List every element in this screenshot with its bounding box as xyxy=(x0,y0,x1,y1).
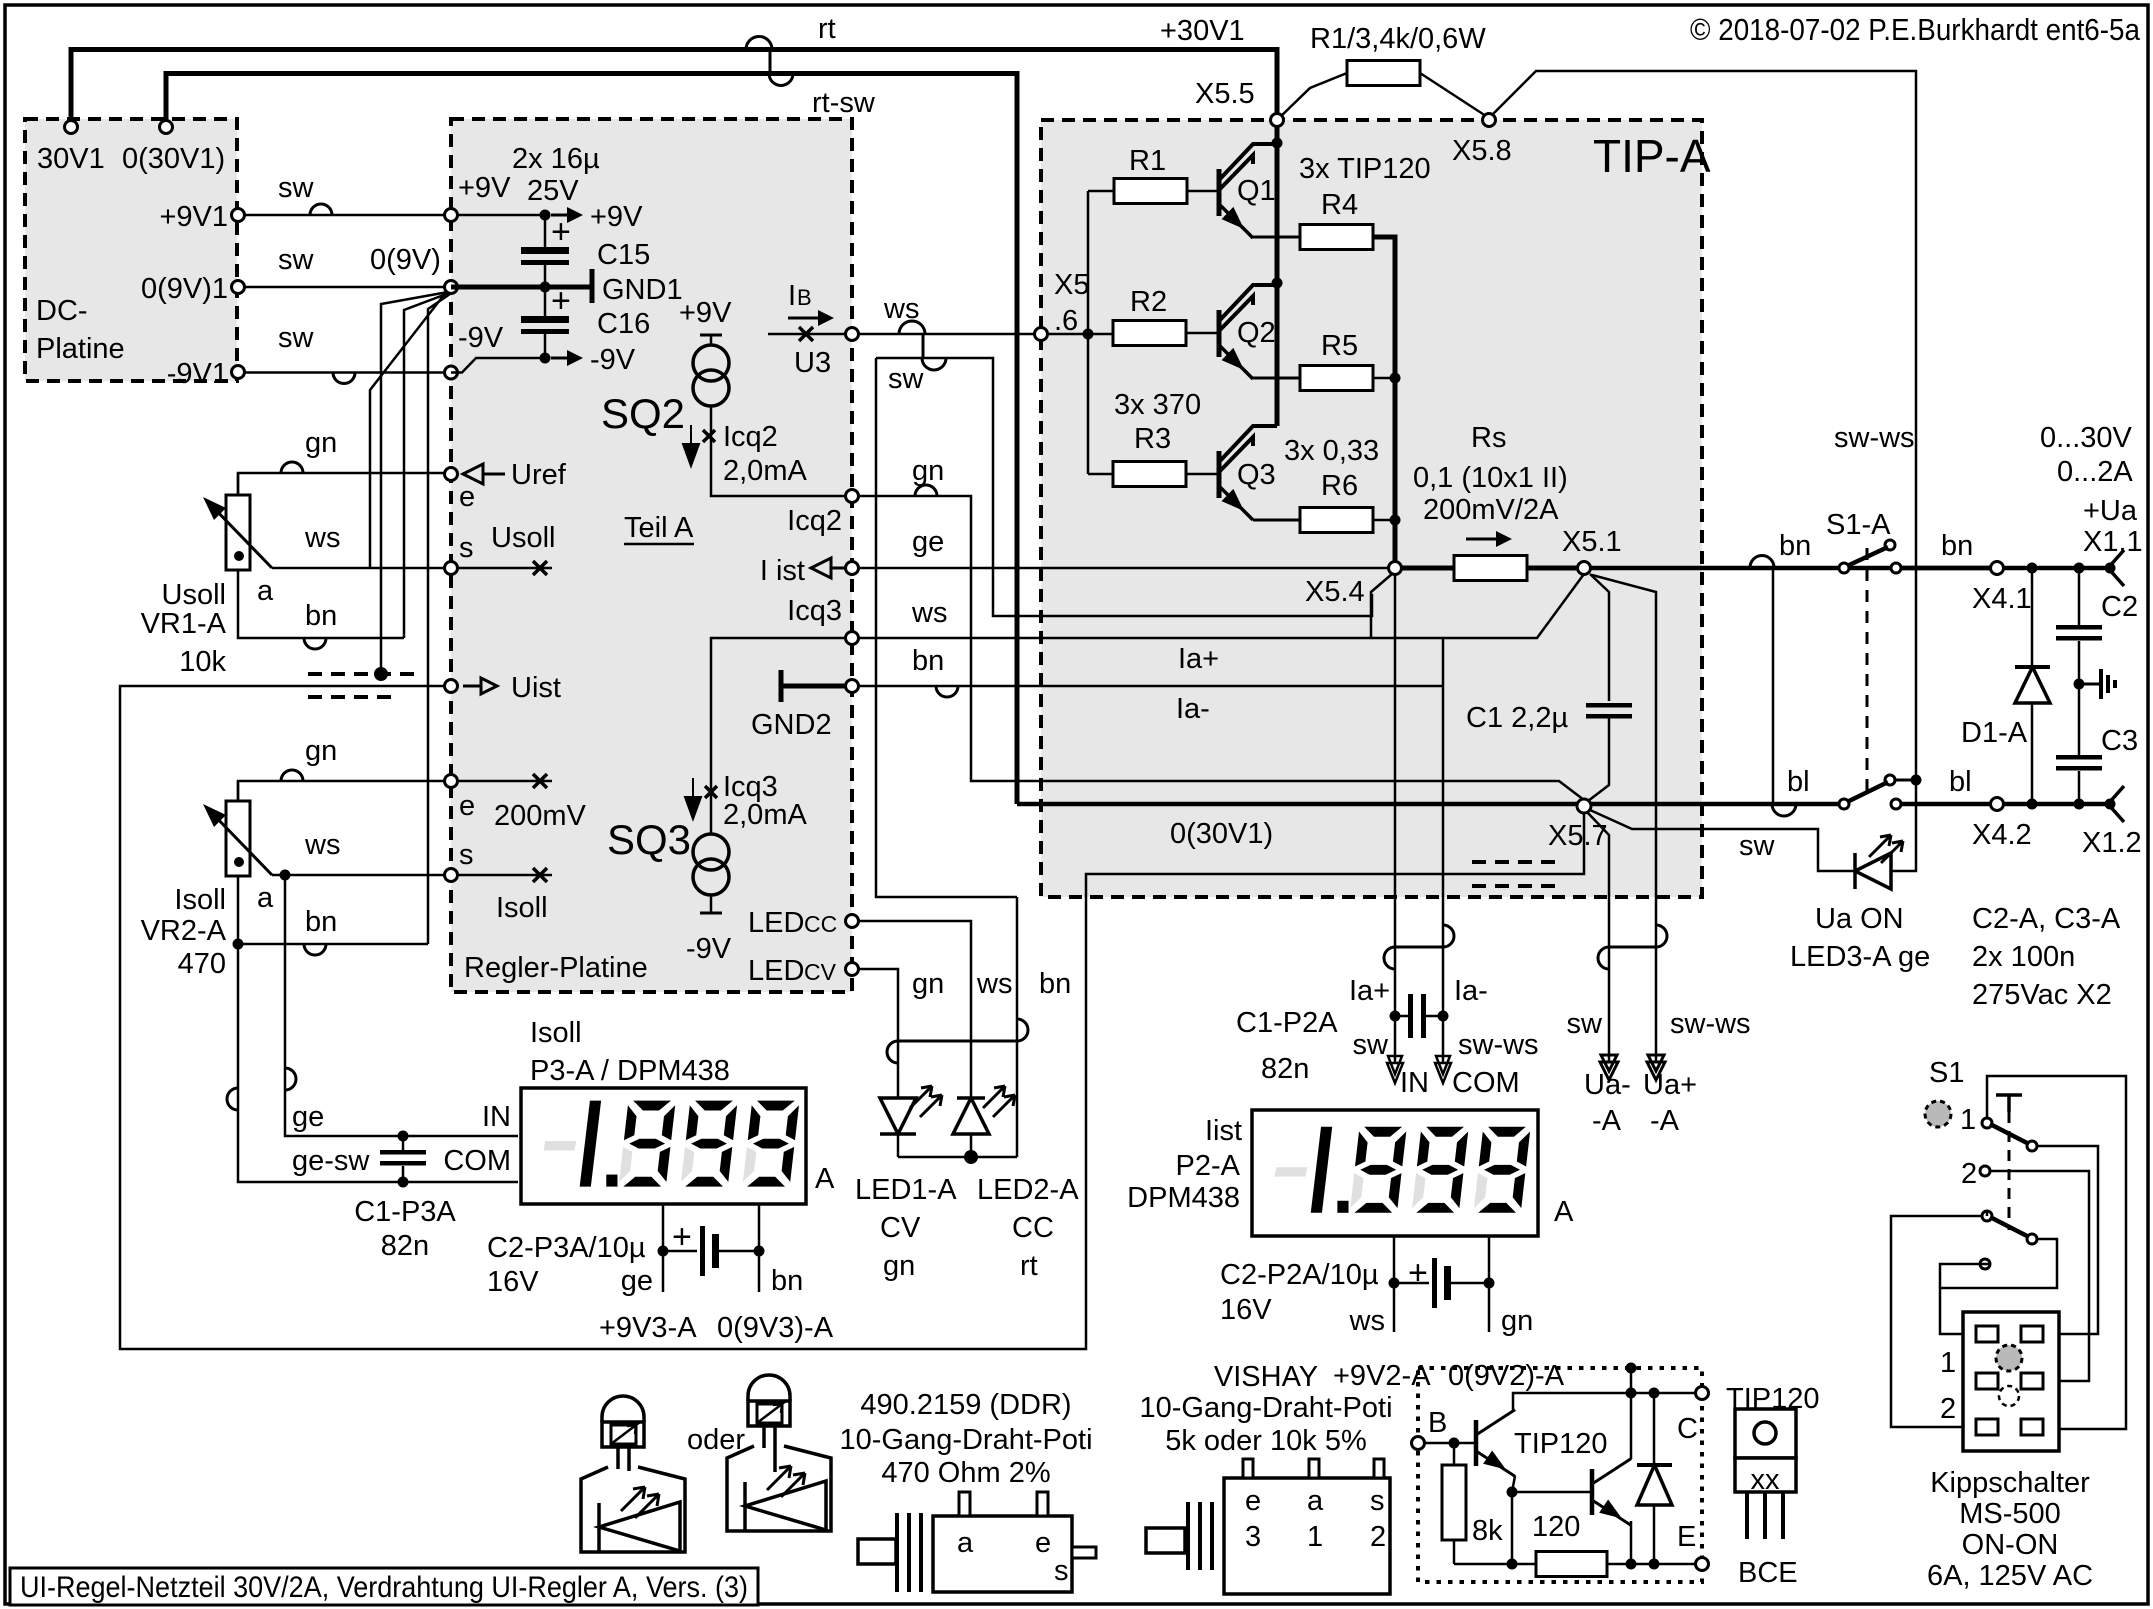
svg-text:GND2: GND2 xyxy=(751,709,832,741)
svg-text:Q3: Q3 xyxy=(1237,459,1276,491)
wire LEDCC to LED2 xyxy=(858,921,971,1098)
svg-text:2: 2 xyxy=(1961,1158,1977,1190)
wire v1 X5.4 to P2A IN xyxy=(1394,574,1397,1062)
svg-text:Uref: Uref xyxy=(511,459,567,491)
wire gn VR1 to Uref xyxy=(238,473,444,495)
svg-text:+9V1: +9V1 xyxy=(159,201,228,233)
svg-text:CC: CC xyxy=(1012,1212,1054,1244)
wire collector bus X5.5 down xyxy=(1275,127,1280,426)
svg-text:sw: sw xyxy=(1739,830,1776,862)
twist rt/rt-sw xyxy=(746,37,772,50)
svg-text:-9V: -9V xyxy=(458,322,504,354)
svg-text:gn: gn xyxy=(912,968,944,1000)
svg-text:LED: LED xyxy=(748,955,804,987)
svg-text:-9V: -9V xyxy=(686,933,732,965)
svg-text:200mV: 200mV xyxy=(494,800,587,832)
svg-text:C2: C2 xyxy=(2101,591,2138,623)
terminal X5.5 xyxy=(1271,114,1284,127)
terminal E xyxy=(1696,1558,1709,1571)
S1 lower switch xyxy=(1982,1211,1992,1221)
svg-text:B: B xyxy=(1428,1407,1447,1439)
svg-text:2x 16µ: 2x 16µ xyxy=(512,143,600,175)
svg-text:+: + xyxy=(551,282,571,320)
capacitor C3 xyxy=(2078,684,2081,755)
wire X5.7 to LED3-A sw xyxy=(1590,810,1855,871)
svg-text:0...30V: 0...30V xyxy=(2040,422,2133,454)
svg-text:275Vac X2: 275Vac X2 xyxy=(1972,979,2112,1011)
wire v2 Ia- X5.1 branch to COM xyxy=(1442,638,1445,1062)
S1 wire contact to body xyxy=(1940,1264,1990,1288)
svg-text:470: 470 xyxy=(178,948,226,980)
S1 wire contact2 to body xyxy=(1990,1171,2089,1381)
svg-text:10-Gang-Draht-Poti: 10-Gang-Draht-Poti xyxy=(839,1424,1092,1456)
transistor TIP120 Qa xyxy=(1474,1420,1479,1466)
svg-text:R4: R4 xyxy=(1321,189,1358,221)
svg-text:0(9V3)-A: 0(9V3)-A xyxy=(717,1312,834,1344)
twist gn/bn at LED bridge xyxy=(898,1040,1017,1043)
svg-text:Ia-: Ia- xyxy=(1176,693,1210,725)
svg-text:-A: -A xyxy=(1592,1105,1622,1137)
wire base bus X5.6 xyxy=(1041,333,1113,336)
terminal Usoll xyxy=(445,562,458,575)
svg-text:+30V1: +30V1 xyxy=(1160,15,1245,47)
resistor Rs xyxy=(1401,566,1454,571)
wire X5.1 to v4 Ua+ xyxy=(1592,575,1656,1062)
connector X1.2 xyxy=(2105,799,2116,810)
svg-text:C2-P3A/10µ: C2-P3A/10µ xyxy=(487,1232,646,1264)
wire ws U3 to X5.6 xyxy=(858,333,1035,336)
svg-text:3x 0,33: 3x 0,33 xyxy=(1284,435,1379,467)
svg-text:6A, 125V AC: 6A, 125V AC xyxy=(1927,1560,2093,1592)
terminal X5.6 xyxy=(1035,328,1048,341)
svg-text:Icq2: Icq2 xyxy=(723,421,778,453)
ground symbol xyxy=(2074,679,2085,690)
svg-text:82n: 82n xyxy=(1261,1053,1309,1085)
svg-text:D1-A: D1-A xyxy=(1961,717,2028,749)
svg-text:X5.7: X5.7 xyxy=(1548,820,1608,852)
S1 gray knob xyxy=(1925,1101,1951,1127)
svg-text:+: + xyxy=(1408,1254,1428,1292)
display P2-A DPM438 xyxy=(1252,1110,1538,1236)
svg-text:X5.8: X5.8 xyxy=(1452,135,1512,167)
svg-text:Icq3: Icq3 xyxy=(787,595,842,627)
svg-text:gn: gn xyxy=(883,1250,915,1282)
resistor 120 xyxy=(1454,1563,1536,1566)
terminal 0(30V1) xyxy=(160,121,173,134)
transistor Q3 xyxy=(1217,451,1222,498)
svg-text:ws: ws xyxy=(976,968,1012,1000)
terminal X5.7 node xyxy=(1577,799,1591,813)
svg-text:Usoll: Usoll xyxy=(162,579,226,611)
wire X5.4 down Ia+ branch xyxy=(1371,574,1392,638)
terminal LEDCC xyxy=(846,915,859,928)
twist Ia+/Ia- xyxy=(1395,946,1443,949)
terminal I ist xyxy=(846,562,859,575)
svg-text:R6: R6 xyxy=(1321,470,1358,502)
terminal U3 ws xyxy=(846,328,859,341)
svg-text:+9V3-A: +9V3-A xyxy=(599,1312,697,1344)
svg-text:s: s xyxy=(1054,1555,1069,1587)
potentiometer VR2-A body xyxy=(237,781,240,801)
svg-text:X1.2: X1.2 xyxy=(2082,827,2142,859)
svg-text:+9V: +9V xyxy=(679,297,732,329)
resistor R4 xyxy=(1300,225,1373,250)
svg-text:bn: bn xyxy=(1039,968,1071,1000)
wire sw-ws vertical down to LED3-A xyxy=(1891,780,1916,871)
current source SQ2 xyxy=(710,335,713,346)
svg-text:bn: bn xyxy=(305,906,337,938)
svg-text:3x TIP120: 3x TIP120 xyxy=(1299,153,1431,185)
terminal 200mV e xyxy=(445,775,458,788)
svg-text:A: A xyxy=(1554,1196,1574,1228)
shield dashes at X5.7 xyxy=(1472,860,1562,864)
wire gn VR2 to 200mV terminal xyxy=(238,781,444,801)
svg-text:gn: gn xyxy=(1501,1305,1533,1337)
wire Qa emitter to Qb base xyxy=(1507,1487,1518,1498)
S1 wire lower pivot left down to body xyxy=(1986,1210,1989,1216)
svg-text:0(9V2)-A: 0(9V2)-A xyxy=(1448,1360,1565,1392)
svg-text:Ua ON: Ua ON xyxy=(1815,903,1904,935)
svg-text:C2-A, C3-A: C2-A, C3-A xyxy=(1972,903,2121,935)
svg-text:e: e xyxy=(1245,1485,1261,1517)
svg-text:VR2-A: VR2-A xyxy=(141,915,227,947)
S1-A mechanical link dashed xyxy=(1866,548,1869,800)
svg-text:sw: sw xyxy=(888,363,925,395)
svg-text:sw: sw xyxy=(278,172,315,204)
wire Qb collector xyxy=(1630,1393,1633,1459)
capacitor C2-P2A battery xyxy=(1393,1236,1396,1283)
vertical link wire xyxy=(1772,568,1775,804)
svg-text:rt: rt xyxy=(818,13,836,45)
svg-text:LED1-A: LED1-A xyxy=(855,1174,957,1206)
svg-text:X1.1: X1.1 xyxy=(2083,526,2143,558)
terminal Isoll s xyxy=(445,869,458,882)
svg-text:R2: R2 xyxy=(1130,286,1167,318)
svg-text:CC: CC xyxy=(804,911,837,937)
terminal 0(9V) node xyxy=(445,281,458,294)
svg-text:120: 120 xyxy=(1532,1511,1580,1543)
svg-text:ws: ws xyxy=(1349,1305,1385,1337)
svg-text:gn: gn xyxy=(912,455,944,487)
wire Icq3 terminal to SQ3 xyxy=(711,638,846,770)
svg-text:Iist: Iist xyxy=(1205,1115,1242,1147)
svg-text:3: 3 xyxy=(1245,1521,1261,1553)
svg-text:ON-ON: ON-ON xyxy=(1962,1529,2059,1561)
svg-text:I: I xyxy=(788,280,796,312)
svg-text:sw: sw xyxy=(278,322,315,354)
svg-text:GND1: GND1 xyxy=(602,274,683,306)
svg-text:16V: 16V xyxy=(1220,1294,1272,1326)
LED LED2-A xyxy=(953,1098,989,1134)
svg-text:S1: S1 xyxy=(1929,1057,1964,1089)
svg-text:bn: bn xyxy=(305,600,337,632)
wire bn GND2 row xyxy=(858,685,1443,688)
wire ws Icq3 row to X5.1 xyxy=(858,574,1584,638)
svg-text:Teil A: Teil A xyxy=(624,512,694,544)
svg-text:X5.4: X5.4 xyxy=(1305,576,1365,608)
terminal Uref xyxy=(445,468,458,481)
svg-text:490.2159 (DDR): 490.2159 (DDR) xyxy=(860,1389,1071,1421)
svg-text:0(30V1): 0(30V1) xyxy=(1170,818,1273,850)
potentiometer VR2-A wiper arrow xyxy=(210,811,272,875)
svg-text:-A: -A xyxy=(1650,1105,1680,1137)
svg-text:P3-A / DPM438: P3-A / DPM438 xyxy=(530,1055,730,1087)
svg-text:U3: U3 xyxy=(794,347,831,379)
svg-text:I ist: I ist xyxy=(760,555,805,587)
svg-text:SQ2: SQ2 xyxy=(601,390,685,437)
svg-text:LED2-A: LED2-A xyxy=(977,1174,1079,1206)
terminal Icq2 xyxy=(846,490,859,503)
wire VR2 bottom to ge-sw row xyxy=(238,944,518,1182)
wire rt 30V1 to X5.5 xyxy=(71,50,1277,128)
capacitor C1 2,2µ xyxy=(1586,703,1632,708)
terminal X5.1 xyxy=(1578,562,1591,575)
connector X1.1 xyxy=(2105,563,2116,574)
svg-text:C2-P2A/10µ: C2-P2A/10µ xyxy=(1220,1259,1379,1291)
svg-text:Regler-Platine: Regler-Platine xyxy=(464,952,648,984)
poti VISHAY pins xyxy=(1243,1459,1253,1478)
display P3-A DPM438 xyxy=(521,1088,806,1204)
svg-text:+: + xyxy=(672,1218,692,1256)
resistor R1 xyxy=(1088,190,1114,193)
svg-text:xx: xx xyxy=(1751,1464,1781,1496)
switch S1-A upper pole xyxy=(1839,563,1849,573)
svg-text:3x 370: 3x 370 xyxy=(1114,389,1201,421)
svg-text:200mV/2A: 200mV/2A xyxy=(1423,494,1559,526)
TIP120 package body xyxy=(1735,1409,1796,1458)
terminal Uist xyxy=(445,680,458,693)
wire bn from TIP-A down to LED bottom bus xyxy=(1016,897,1019,1157)
shield dashes upper xyxy=(308,672,420,676)
wire 0(9V) fan line 3 xyxy=(404,293,449,638)
top bus to C xyxy=(1631,1392,1702,1395)
svg-text:-9V1: -9V1 xyxy=(167,358,228,390)
switch S1-A lower pole xyxy=(1839,799,1849,809)
wire bn VR2 to 0(9V) riser xyxy=(238,877,428,944)
svg-text:Isoll: Isoll xyxy=(496,892,548,924)
svg-text:a: a xyxy=(257,882,274,914)
svg-text:SQ3: SQ3 xyxy=(607,816,691,863)
capacitor C15 xyxy=(544,215,547,247)
svg-text:IN: IN xyxy=(482,1101,511,1133)
svg-text:DC-: DC- xyxy=(36,295,88,327)
wire B to base xyxy=(1425,1442,1476,1445)
svg-text:e: e xyxy=(459,790,475,822)
wire SQ2 to Icq2 terminal xyxy=(711,406,846,496)
svg-text:+9V: +9V xyxy=(458,172,511,204)
twist ws/sw xyxy=(899,321,925,334)
svg-text:0(9V)1: 0(9V)1 xyxy=(141,273,228,305)
svg-text:CV: CV xyxy=(804,959,837,985)
svg-text:B: B xyxy=(797,285,812,310)
S1 dashed link xyxy=(2008,1112,2011,1230)
svg-text:470 Ohm 2%: 470 Ohm 2% xyxy=(881,1457,1050,1489)
transistor Q1 xyxy=(1217,169,1222,216)
LED drawing 1 xyxy=(602,1396,644,1422)
S1 body xyxy=(1963,1312,2059,1451)
svg-text:bn: bn xyxy=(1779,530,1811,562)
svg-text:MS-500: MS-500 xyxy=(1959,1498,2061,1530)
svg-text:25V: 25V xyxy=(527,175,579,207)
svg-text:X5: X5 xyxy=(1054,269,1089,301)
resistor R5 xyxy=(1300,366,1373,391)
svg-text:ge: ge xyxy=(912,526,944,558)
svg-text:10k: 10k xyxy=(179,646,226,678)
svg-text:rt: rt xyxy=(1020,1250,1038,1282)
svg-text:1: 1 xyxy=(1307,1521,1323,1553)
svg-text:X5.5: X5.5 xyxy=(1195,78,1255,110)
svg-text:-9V: -9V xyxy=(590,344,636,376)
svg-text:oder: oder xyxy=(687,1424,745,1456)
wire LEDCV to LED1 xyxy=(858,969,898,1098)
LED LED3-A xyxy=(1855,853,1891,889)
svg-text:bn: bn xyxy=(912,645,944,677)
wire +9V to C15 junction and arrow +9V xyxy=(457,214,545,217)
svg-text:2,0mA: 2,0mA xyxy=(723,799,807,831)
svg-text:e: e xyxy=(459,481,475,513)
wire ws VR1 wiper to Usoll xyxy=(272,567,444,570)
diode D1-A xyxy=(2027,563,2038,574)
svg-text:gn: gn xyxy=(305,427,337,459)
LED LED1-A xyxy=(880,1098,916,1134)
S1 wire upper throw to body xyxy=(2037,1146,2098,1334)
arrow into IN xyxy=(1387,1056,1403,1083)
resistor R3 xyxy=(1088,473,1113,476)
wire Uist big loop to X5.7 xyxy=(120,686,1584,1349)
svg-text:s: s xyxy=(459,839,474,871)
terminal X5.8 xyxy=(1483,114,1496,127)
svg-text:R1/3,4k/0,6W: R1/3,4k/0,6W xyxy=(1310,23,1486,55)
capacitor C2 xyxy=(2074,563,2085,574)
transistor Q2 xyxy=(1217,310,1222,357)
svg-text:Q2: Q2 xyxy=(1237,317,1276,349)
svg-text:0(30V1): 0(30V1) xyxy=(122,143,225,175)
wire 0(9V) fan line 1 xyxy=(370,291,447,568)
svg-text:X4.2: X4.2 xyxy=(1972,819,2032,851)
wire X5.1 to bn output xyxy=(1590,566,1997,571)
svg-text:ge: ge xyxy=(621,1265,653,1297)
arrow Ua+ xyxy=(1647,1055,1665,1080)
wire X5.1 down to C1 xyxy=(1590,574,1609,701)
terminal C xyxy=(1696,1387,1709,1400)
resistor 8k xyxy=(1453,1443,1456,1465)
title box xyxy=(10,1568,758,1605)
svg-text:bl: bl xyxy=(1949,766,1972,798)
svg-text:2,0mA: 2,0mA xyxy=(723,455,807,487)
wire LED bottom bus xyxy=(898,1156,1017,1159)
svg-text:TIP120: TIP120 xyxy=(1514,1428,1608,1460)
svg-text:16V: 16V xyxy=(487,1266,539,1298)
S1 contact 2 xyxy=(1980,1166,1990,1176)
svg-text:e: e xyxy=(1035,1527,1051,1559)
svg-text:© 2018-07-02 P.E.Burkhardt ent: © 2018-07-02 P.E.Burkhardt ent6-5a xyxy=(1690,12,2141,47)
svg-text:2: 2 xyxy=(1940,1393,1956,1425)
LED drawing 2 xyxy=(748,1375,790,1401)
svg-text:Isoll: Isoll xyxy=(530,1017,582,1049)
svg-text:+9V: +9V xyxy=(590,201,643,233)
svg-text:.6: .6 xyxy=(1054,305,1078,337)
svg-text:30V1: 30V1 xyxy=(37,143,105,175)
svg-text:C1 2,2µ: C1 2,2µ xyxy=(1466,702,1568,734)
terminal 30V1 xyxy=(65,121,78,134)
wire +9V1 to +9V xyxy=(244,214,444,217)
wire ge main row to X5.4 xyxy=(858,567,1389,570)
svg-text:+9V2-A: +9V2-A xyxy=(1333,1360,1431,1392)
svg-text:ws: ws xyxy=(304,829,340,861)
svg-text:R5: R5 xyxy=(1321,330,1358,362)
svg-text:COM: COM xyxy=(1452,1067,1520,1099)
svg-text:sw: sw xyxy=(1567,1008,1604,1040)
wire bn arc and S1-A xyxy=(1750,556,1774,568)
svg-text:BCE: BCE xyxy=(1738,1557,1798,1589)
svg-text:C15: C15 xyxy=(597,239,650,271)
svg-text:gn: gn xyxy=(305,735,337,767)
svg-text:C1-P2A: C1-P2A xyxy=(1236,1007,1338,1039)
potentiometer VR1-A wiper arrow xyxy=(210,504,272,568)
svg-text:R3: R3 xyxy=(1134,423,1171,455)
wire rt-sw 0(30V1) down to bl row xyxy=(166,74,1017,805)
arrow into COM xyxy=(1435,1056,1451,1083)
svg-text:IN: IN xyxy=(1400,1067,1429,1099)
wire -9V to arrow xyxy=(451,358,545,373)
DC-Platine board box xyxy=(25,119,237,381)
wire ws VR2 wiper to Isoll xyxy=(272,874,444,877)
wire gn Icq2 to X5.7 via y781 xyxy=(858,496,1584,800)
svg-text:a: a xyxy=(957,1527,974,1559)
resistor R1/3,4k/0,6W with wires to X5.5 and X5.8 xyxy=(1277,73,1347,120)
terminal X4.2 xyxy=(1991,798,2004,811)
svg-text:1: 1 xyxy=(1940,1347,1956,1379)
svg-text:Ia+: Ia+ xyxy=(1178,643,1219,675)
svg-text:UI-Regel-Netzteil 30V/2A, Verd: UI-Regel-Netzteil 30V/2A, Verdrahtung UI… xyxy=(20,1571,748,1604)
svg-text:A: A xyxy=(815,1163,835,1195)
svg-text:s: s xyxy=(1370,1485,1385,1517)
terminal +9V on Regler-Platine xyxy=(445,209,458,222)
capacitor C1-P2A xyxy=(1390,1011,1401,1022)
svg-text:Rs: Rs xyxy=(1471,422,1506,454)
svg-text:LED3-A ge: LED3-A ge xyxy=(1790,941,1930,973)
arrow Ua- xyxy=(1600,1055,1618,1080)
resistor R6 xyxy=(1300,508,1373,533)
wire GND1 and symbol xyxy=(540,282,551,293)
terminal LEDCV xyxy=(846,963,859,976)
svg-text:Ua-: Ua- xyxy=(1584,1069,1631,1101)
svg-text:Ia+: Ia+ xyxy=(1349,975,1390,1007)
svg-text:sw: sw xyxy=(278,244,315,276)
svg-text:82n: 82n xyxy=(381,1230,429,1262)
svg-text:s: s xyxy=(459,532,474,564)
svg-text:0,1 (10x1 II): 0,1 (10x1 II) xyxy=(1413,462,1568,494)
svg-text:+Ua: +Ua xyxy=(2083,495,2138,527)
wire Qb emitter to bottom bus xyxy=(1630,1521,1633,1564)
svg-text:rt-sw: rt-sw xyxy=(812,87,876,119)
terminal X4.1 xyxy=(1991,562,2004,575)
poti VISHAY body xyxy=(1146,1528,1185,1553)
svg-text:Uist: Uist xyxy=(511,672,561,704)
S1 contact lower open xyxy=(1980,1259,1990,1269)
capacitor C16 xyxy=(544,287,547,316)
poti 490.2159 body xyxy=(858,1539,896,1564)
svg-text:P2-A: P2-A xyxy=(1176,1150,1241,1182)
svg-text:bn: bn xyxy=(771,1265,803,1297)
wire sw loop down to TIP-A xyxy=(876,358,1372,616)
diode in TIP120 xyxy=(1653,1393,1656,1465)
potentiometer VR1-A body xyxy=(237,473,240,495)
poti 490.2159 pins xyxy=(959,1492,970,1516)
svg-text:+: + xyxy=(551,213,571,251)
svg-text:E: E xyxy=(1677,1521,1696,1553)
svg-text:LED: LED xyxy=(748,907,804,939)
